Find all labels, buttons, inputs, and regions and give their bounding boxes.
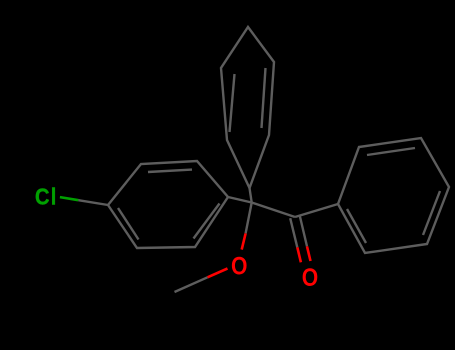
- ring C (phenyl right) outline: [338, 138, 449, 253]
- bond O to methyl C (red half): [208, 269, 228, 278]
- ether oxygen label O: [231, 252, 247, 280]
- carbonyl C=O double bond line 1 red half: [297, 247, 301, 262]
- ring A aromatic inner bond 3: [118, 208, 139, 240]
- ring B aromatic inner bond 1: [230, 74, 235, 132]
- bond central C to ring B ipso: [250, 188, 252, 203]
- bond Cl-C1 (green half): [60, 197, 79, 200]
- bond ring A ipso to central C: [228, 197, 252, 203]
- svg-text:O: O: [231, 252, 247, 280]
- chlorine atom label Cl: [35, 184, 58, 209]
- ring C aromatic inner bond 1: [367, 148, 415, 155]
- carbonyl oxygen label O: [302, 263, 318, 291]
- bond Cl-C1 (gray half): [78, 200, 108, 205]
- ring A aromatic inner bond 2: [194, 204, 220, 239]
- carbonyl C=O double bond line 1 gray half: [290, 218, 297, 247]
- ring B aromatic inner bond 2: [262, 68, 266, 128]
- carbonyl C=O double bond line 2 red half: [307, 246, 311, 261]
- bond central C to ether O (gray half): [246, 203, 252, 234]
- bond O to methyl C (gray half): [175, 277, 208, 292]
- ring C aromatic inner bond 2: [423, 191, 440, 235]
- bond carbonyl C to ring C ipso: [295, 204, 338, 217]
- bond central C to carbonyl C: [252, 203, 295, 218]
- bond central C to ether O (red half): [242, 233, 246, 249]
- svg-text:Cl: Cl: [35, 184, 58, 209]
- ring A aromatic inner bond 1: [148, 170, 192, 172]
- ring B (phenyl, tall) outline: [221, 27, 274, 188]
- svg-text:O: O: [302, 263, 318, 291]
- ring A (4-chlorophenyl) outline: [108, 161, 228, 248]
- ring C aromatic inner bond 3: [347, 209, 366, 243]
- carbonyl C=O double bond line 2 gray half: [300, 216, 307, 247]
